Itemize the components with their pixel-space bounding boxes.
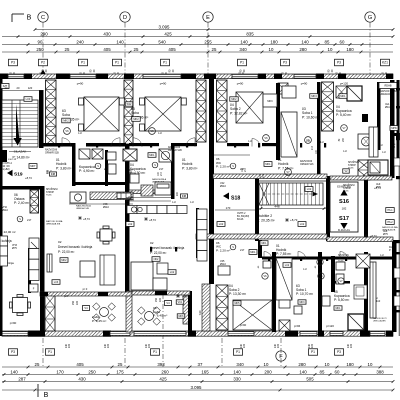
svg-text:120: 120 [28,86,33,90]
wall x188 loggia edge [188,291,192,332]
svg-text:94B: 94B [51,173,56,176]
svg-text:MH6: MH6 [391,127,397,130]
washbasin right bath [354,285,367,299]
hatched pier bottom center [202,284,210,331]
wall y186 left block [0,186,40,190]
MK1 box right wing [264,162,272,167]
svg-text:P: 22,00 m²: P: 22,00 m² [150,251,166,255]
svg-text:RAZVOD KLIMA: RAZVOD KLIMA [380,90,397,93]
svg-text:RDHB: RDHB [384,85,391,88]
svg-text:MK1: MK1 [250,251,256,254]
svg-text:330: 330 [233,376,241,381]
wall x40 left apartment lower [40,186,45,332]
bottom exterior wall hatched band [2,331,393,336]
right edge tiny boxes [394,158,400,166]
right edge wall y133 [391,133,400,136]
svg-text:10: 10 [269,47,274,52]
stair dim 448 [259,208,326,210]
svg-text:H6-1: H6-1 [387,209,393,212]
svg-text:Dnevni boravak i kuhinja: Dnevni boravak i kuhinja [58,245,92,249]
bath fixtures left unit [107,152,116,160]
bottom dimension chain 3 [2,381,393,383]
bedroom bottom wall left unit [43,143,73,147]
svg-text:430: 430 [78,376,86,381]
svg-text:RAZVODNI: RAZVODNI [168,146,180,149]
svg-text:D: D [123,15,127,21]
bath wall y190 mid unit [129,190,171,194]
svg-text:STROP: STROP [348,165,356,167]
V7 circle right bath [341,125,348,132]
svg-text:E: E [206,15,210,21]
svg-text:MK1: MK1 [265,163,271,166]
svg-text:UREO-LAGER: UREO-LAGER [373,319,386,322]
svg-text:250: 250 [155,297,158,302]
top dimension chain 3 [2,44,393,46]
svg-text:P: 7,55 m²: P: 7,55 m² [276,252,292,256]
svg-text:KZ1: KZ1 [382,61,388,65]
svg-text:10: 10 [325,362,330,367]
center X wall left [196,80,206,142]
svg-text:P: 2: P: 2 [389,249,394,252]
grid axis dashed lines top [42,23,44,75]
tall cabinet right bottom [370,262,376,318]
central spine wall [209,78,214,284]
svg-text:130: 130 [68,343,71,348]
F A boxes left kitchen [29,284,38,292]
svg-text:p=90: p=90 [160,82,167,86]
svg-text:P: 2,20 m²: P: 2,20 m² [216,248,230,252]
dark toilet right bath [362,114,368,122]
svg-text:MK1: MK1 [340,95,346,98]
central stair X left end [259,183,269,205]
door jambs top row walls [58,143,60,148]
svg-text:MK1: MK1 [336,307,342,310]
svg-text:LU: LU [172,200,176,204]
svg-text:MKT: MKT [30,165,36,168]
svg-text:+8,73: +8,73 [290,218,298,222]
svg-text:P: 5,40 m²: P: 5,40 m² [336,113,352,117]
bath wall x105 left unit [105,150,108,186]
svg-text:430: 430 [103,31,111,36]
grid axis dashed lines bottom [42,338,44,367]
svg-text:S17: S17 [339,216,349,222]
svg-text:LU: LU [78,131,82,135]
svg-text:425: 425 [164,31,172,36]
svg-text:LU2: LU2 [219,223,224,226]
right edge boxes top [390,126,398,131]
svg-text:S16: S16 [339,199,349,205]
bath fixtures bottom right [336,262,345,270]
svg-text:LU3: LU3 [54,281,59,284]
hatched wall y238 right wing [327,237,393,242]
svg-text:LU2: LU2 [128,223,133,226]
svg-text:388: 388 [376,369,384,374]
svg-text:25: 25 [118,362,123,367]
svg-text:p=90: p=90 [237,82,244,86]
kitchen counter mid apartment [197,209,207,219]
svg-text:LU2: LU2 [300,223,305,226]
svg-text:P: 6,45 m²: P: 6,45 m² [92,319,106,323]
MK box under Soba1 bed [279,300,290,308]
kitchen counter leftmost apartment edge [0,236,8,246]
svg-text:P: 2,20 m²: P: 2,20 m² [216,165,230,169]
LU2 boxes stair [305,187,313,192]
svg-text:220: 220 [76,300,79,305]
svg-text:MK3: MK3 [300,301,306,304]
svg-text:100: 100 [46,169,49,174]
svg-text:140: 140 [240,39,248,44]
svg-text:170: 170 [56,369,64,374]
svg-text:Ø75: Ø75 [376,186,381,189]
svg-text:RAZVODNI: RAZVODNI [45,149,57,152]
svg-text:STROP: STROP [46,192,54,194]
svg-text:LU: LU [380,253,383,257]
svg-text:LU2: LU2 [170,271,175,274]
bath fixtures mid [130,174,139,183]
bath wall y182 left unit [72,182,128,185]
svg-text:p=120: p=120 [326,324,334,328]
grid bubble G [365,12,375,22]
svg-text:Ø75: Ø75 [12,247,17,250]
party wall 1-2 X top [124,80,133,144]
svg-text:+x,xx: +x,xx [46,195,52,197]
loggia X wall bottom center [216,285,228,330]
svg-text:LU: LU [248,139,252,143]
bottom dimension chain 1 [2,366,393,368]
V7 circle bottom bath right [338,278,344,284]
svg-text:V4: V4 [84,306,88,310]
svg-text:P: 6,40 m²: P: 6,40 m² [153,314,167,318]
mid unit washer 2 with circle [159,149,172,162]
mid unit: washer X dark box [123,149,137,161]
door arcs bedrooms [62,138,71,147]
svg-text:P: 10,60 m²: P: 10,60 m² [302,115,320,119]
right edge wall x397 [397,80,400,160]
bed bottom Soba2 X [233,300,272,330]
dim 170 center [215,209,255,211]
top wall windows [8,74,24,78]
svg-text:p=96: p=96 [294,324,301,328]
S19 mark [7,170,13,176]
wall x317 right rooms [317,82,321,176]
wall y257 right wing hodnik [262,257,393,260]
wall x364 right column [364,180,368,240]
X ladder wall x322 bath [322,82,334,131]
svg-text:217: 217 [159,167,164,171]
hatched strip loggia left edge [183,296,189,324]
svg-text:100: 100 [176,191,179,196]
svg-text:180: 180 [346,362,354,367]
bed mid unit with X [145,97,181,131]
entry arrow mark on top wall [40,70,45,75]
svg-text:217: 217 [27,218,32,222]
bed left unit with X [84,97,119,131]
svg-text:Ø75: Ø75 [383,233,388,236]
svg-text:RADIJ/SUŠILA: RADIJ/SUŠILA [152,178,167,181]
svg-text:P: 13,30 m²: P: 13,30 m² [229,292,247,296]
loggia mid table [145,312,154,321]
bottom lintel boxes [9,349,18,356]
svg-text:25: 25 [134,47,139,52]
svg-text:25: 25 [35,362,40,367]
svg-text:393: 393 [157,362,165,367]
kitchen wall mid x196 [196,208,199,258]
svg-text:P1: P1 [240,61,244,65]
svg-text:220: 220 [159,297,162,302]
svg-text:3.095: 3.095 [159,24,171,29]
svg-text:VC1: VC1 [178,301,183,304]
left edge wall [0,74,3,336]
lintel label boxes row top [9,59,18,66]
svg-text:60: 60 [335,369,340,374]
svg-text:170: 170 [226,206,231,210]
svg-text:Ø110: Ø110 [103,206,110,209]
svg-text:MK2: MK2 [231,98,237,101]
door jambs bottom walls [150,247,152,252]
svg-text:P3: P3 [11,61,15,65]
svg-text:MK1: MK1 [149,154,155,157]
svg-text:P: 3,80 m²: P: 3,80 m² [56,166,72,170]
wall x276 top right unit [276,83,280,160]
grid bubble F bottom [276,351,286,361]
svg-text:MK2: MK2 [61,259,67,262]
section mark B bottom-left [37,384,39,397]
svg-text:140: 140 [301,39,309,44]
svg-text:STROP: STROP [343,188,351,190]
svg-text:SPUŠTENI: SPUŠTENI [348,161,360,164]
svg-text:425: 425 [159,376,167,381]
stair top line [259,180,326,182]
svg-text:+x,xx: +x,xx [343,191,349,193]
svg-text:P1: P1 [236,350,240,354]
svg-text:03 OVHI-2: 03 OVHI-2 [1,163,13,165]
X box right bottom [356,254,370,268]
svg-text:NK2: NK2 [154,258,159,261]
svg-text:10: 10 [368,362,373,367]
stairwell wall left x255 [255,176,259,241]
svg-text:B: B [44,392,49,399]
svg-text:P: 2: P: 2 [391,146,396,149]
bottom overall line with 3.095 [2,389,393,391]
svg-text:340: 340 [236,362,244,367]
svg-text:ORMAR S1B: ORMAR S1B [168,149,182,152]
svg-text:LU: LU [303,267,306,271]
wall x318 bottom rooms [318,252,322,332]
svg-text:P1: P1 [311,350,315,354]
svg-text:P: 5,50 m²: P: 5,50 m² [334,298,350,302]
svg-text:B1, B2(-B3): B1, B2(-B3) [237,216,249,218]
grid bubble E [203,12,213,22]
LU2 box center [217,222,225,227]
svg-text:ORMAR S16: ORMAR S16 [300,163,314,166]
svg-text:V7: V7 [286,170,290,174]
sofa mid apartment L-shape [131,262,153,290]
svg-text:+8,73: +8,73 [83,217,90,221]
svg-text:250: 250 [72,300,75,305]
svg-text:Ø110: Ø110 [220,263,227,266]
svg-text:UREDAJA 2/B: UREDAJA 2/B [380,93,395,96]
tall cabinet right x369 [369,127,378,157]
svg-text:pr 0: pr 0 [83,287,88,291]
svg-text:85: 85 [320,369,325,374]
svg-text:LU2: LU2 [285,264,290,267]
svg-text:V4: V4 [166,301,170,305]
svg-text:60: 60 [340,39,345,44]
svg-text:835: 835 [246,31,254,36]
svg-text:180: 180 [270,39,278,44]
svg-text:255: 255 [204,39,212,44]
svg-text:165: 165 [201,369,209,374]
hatched wall y176 right wing [330,176,392,180]
svg-text:P: 10,70 m²: P: 10,70 m² [296,292,314,296]
S18 mark [223,193,229,200]
svg-text:Ø110: Ø110 [385,105,392,109]
stair core X wall left top [46,80,57,145]
svg-text:P1: P1 [48,350,52,354]
equipment hatched strip left unit [90,192,133,200]
svg-text:UREDAJA 2/B: UREDAJA 2/B [382,229,396,232]
svg-text:25: 25 [65,47,70,52]
svg-text:94B: 94B [182,195,187,198]
right edge continuation stubs [396,88,400,90]
svg-text:P: 2,40 m²: P: 2,40 m² [14,201,30,205]
washer with circle right bath [358,134,374,149]
svg-text:VE: VE [319,275,323,278]
svg-text:P1: P1 [163,61,167,65]
wall x378 right zone top [377,82,381,150]
svg-text:MK3: MK3 [267,100,273,103]
wall x130 loggia mid hatched [126,291,132,332]
grid bubble D [120,12,130,22]
svg-text:V6: V6 [65,129,69,133]
svg-text:Ø110: Ø110 [128,199,135,202]
svg-text:LU: LU [382,150,385,154]
svg-text:250: 250 [88,369,96,374]
svg-text:280: 280 [298,362,306,367]
central stair walk line with arrow [263,193,318,195]
svg-text:P3: P3 [11,350,15,354]
svg-text:p=90: p=90 [301,82,308,86]
svg-text:LU: LU [379,143,382,147]
kitchen counter left apartment [29,238,39,249]
bath-hall wall x171 mid unit [171,143,175,199]
svg-text:ORMAR S1B: ORMAR S1B [45,152,59,155]
svg-text:Kl-0b/2-dm: Kl-0b/2-dm [338,229,350,232]
svg-text:P1: P1 [115,61,119,65]
svg-text:P: 4,90 m²: P: 4,90 m² [79,169,95,173]
svg-text:P3: P3 [337,61,341,65]
wall x272 bottom rooms [272,252,276,332]
svg-text:H6-2: H6-2 [387,221,393,224]
svg-text:448: 448 [274,204,279,208]
top dimension chain 2 [2,36,393,38]
left stair flight SILAZAK [2,100,38,147]
central stair flight Stubiste 2 [259,183,323,205]
svg-text:LU: LU [306,139,310,143]
wall x331 bottom partial [331,256,335,292]
svg-text:P: 22,00 m²: P: 22,00 m² [0,230,16,234]
svg-text:V6: V6 [150,129,154,133]
loggia front wall left [40,292,132,296]
top exterior wall hatched band [2,74,393,79]
hatched wall y234 under stair [196,234,327,239]
V7 circle bottom bath [317,259,323,265]
svg-text:RADIJ/SUŠILA: RADIJ/SUŠILA [76,205,91,208]
sofa left apartment vertical [100,255,115,285]
hall hatched wall y174 center [213,174,327,179]
VE circles bottom [262,273,268,279]
bedroom bottom wall mid unit [129,143,159,146]
svg-text:G: G [368,15,372,21]
loggia X wall bottom left [45,295,55,331]
svg-text:180: 180 [346,47,354,52]
svg-text:25: 25 [212,47,217,52]
svg-text:S18: S18 [231,196,240,202]
svg-text:P: 3,80 m²: P: 3,80 m² [182,166,198,170]
svg-text:LU3: LU3 [26,97,31,101]
svg-text:+8,73: +8,73 [149,218,156,222]
svg-text:7,60: 7,60 [199,310,202,315]
bed bottom Soba1 vertical [276,258,292,300]
equipment mid unit [155,182,171,195]
wall x258 stub [258,240,262,258]
svg-text:217: 217 [311,145,314,150]
dining table mid-left apartment [100,229,112,241]
left edge KZ box [1,84,9,89]
svg-text:S19: S19 [14,172,23,178]
bed Soba1 right unit vertical [281,112,297,157]
svg-text:UREDAJA S/B: UREDAJA S/B [46,223,61,226]
svg-text:MK3: MK3 [311,94,317,98]
svg-text:182: 182 [342,207,347,211]
svg-text:SPUŠTENI: SPUŠTENI [46,188,58,191]
kitchen strip mid unit horizontal [127,206,137,214]
svg-text:10: 10 [328,47,333,52]
right zone wall x390 top [390,80,395,178]
svg-text:+8,73: +8,73 [370,234,377,238]
svg-text:5/22: 5/22 [127,103,132,106]
svg-text:130: 130 [311,343,314,348]
svg-text:90: 90 [38,39,43,44]
svg-text:P2: P2 [41,61,45,65]
center X wall right [217,80,228,142]
svg-text:MK5: MK5 [235,302,241,305]
svg-text:F: F [279,354,283,360]
svg-text:UREDAJ S/B: UREDAJ S/B [76,207,89,210]
svg-text:P: 14,80 m²: P: 14,80 m² [12,156,30,160]
wall x364 bottom right [364,252,368,332]
svg-text:10: 10 [264,362,269,367]
svg-text:340: 340 [239,47,247,52]
svg-text:130: 130 [350,343,353,348]
svg-text:505: 505 [306,376,314,381]
svg-text:LU: LU [343,149,347,153]
svg-text:290: 290 [40,31,48,36]
kitchen peninsula wall left [28,248,31,293]
loggia front wall mid [132,291,190,295]
svg-text:200: 200 [264,369,272,374]
radiator cabinet left [47,254,52,272]
ostava X wall [30,190,39,213]
elevator S16 S17 box [330,182,358,232]
dining table left apartment [13,298,28,313]
svg-text:+8,73: +8,73 [25,176,32,180]
LU2 box hodnik bottom [283,263,291,268]
svg-text:RAZVOD KLIMA: RAZVOD KLIMA [46,220,63,223]
svg-text:LU: LU [190,200,194,204]
svg-text:RAZVODNI: RAZVODNI [300,160,312,163]
svg-text:LU: LU [320,140,323,144]
